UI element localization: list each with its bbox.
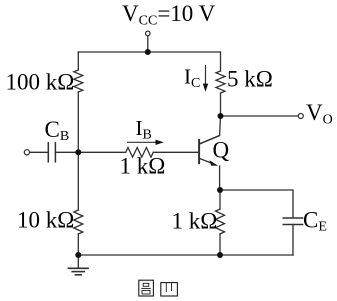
wire input stub (terminal to CB): [30, 151, 48, 153]
resistor R2 10 kOhm: [74, 210, 83, 234]
caption: Chinese characters (Figure 4) drawn as strokes: [139, 280, 178, 296]
wire CE to bottom rail: [292, 225, 294, 256]
svg-text:IB: IB: [136, 116, 152, 143]
capacitor CE plates: [283, 218, 302, 225]
transistor Q collector diagonal: [199, 136, 219, 145]
svg-text:VCC=10 V: VCC=10 V: [122, 1, 216, 29]
wire CB to base node: [55, 151, 78, 153]
wire left branch lower (base node to 10k): [77, 152, 79, 210]
wire 1k emitter to bottom rail: [219, 234, 221, 255]
wire collector lead: [199, 116, 220, 144]
transistor Q emitter diagonal with arrow: [199, 158, 218, 165]
resistor R1 100 kOhm: [74, 70, 83, 92]
svg-text:CE: CE: [303, 208, 327, 235]
wire left branch upper (Vcc to 100k): [77, 52, 79, 70]
node: emitter node dot: [217, 187, 223, 193]
wire base node to 1k base resistor: [78, 151, 125, 153]
svg-text:VO: VO: [306, 100, 333, 128]
resistor R4 1 kOhm (base): [126, 148, 154, 158]
terminal: Vo open circle: [298, 114, 303, 119]
node: collector node dot: [218, 113, 224, 119]
wire emitter node to 1k emitter: [219, 190, 221, 209]
wire top rail: [78, 51, 220, 53]
terminal: input open circle: [24, 150, 29, 155]
current arrow IB: [127, 140, 164, 145]
svg-text:5 kΩ: 5 kΩ: [227, 67, 273, 92]
wire left branch middle (100k to base node): [77, 92, 79, 152]
wire right branch top (rail to 5k): [220, 52, 222, 71]
resistor R5 1 kOhm (emitter): [216, 209, 225, 234]
node: Vcc tap dot: [145, 49, 151, 55]
capacitor CB plates: [48, 143, 55, 162]
wire emitter node to CE branch: [220, 190, 293, 217]
svg-text:1 kΩ: 1 kΩ: [172, 209, 218, 234]
svg-text:1 kΩ: 1 kΩ: [120, 154, 166, 179]
ground stem: [77, 255, 79, 268]
svg-text:100 kΩ: 100 kΩ: [6, 70, 75, 95]
transistor Q base bar: [198, 140, 200, 163]
svg-text:CB: CB: [45, 117, 70, 144]
svg-text:IC: IC: [184, 65, 200, 92]
current arrow IC: [203, 65, 208, 92]
wire Vcc stub: [147, 36, 149, 52]
wire right branch (5k to collector node): [220, 93, 222, 116]
node: ground rail left dot: [75, 252, 81, 258]
wire output (collector node to Vo terminal): [221, 115, 299, 117]
wire bottom rail: [78, 254, 293, 256]
node: bottom emitter dot: [217, 252, 223, 258]
node: base node dot: [75, 149, 81, 155]
wire emitter lead vertical: [219, 166, 221, 190]
glyph Tu (figure): [139, 280, 154, 296]
wire left branch bottom (10k to ground rail): [77, 234, 79, 255]
resistor R3 5 kOhm: [216, 71, 225, 93]
svg-text:10 kΩ: 10 kΩ: [17, 208, 74, 233]
terminal: Vcc open circle: [146, 31, 151, 36]
ground symbol: [68, 268, 89, 275]
glyph Si (four): [161, 283, 178, 296]
svg-text:Q: Q: [213, 138, 230, 163]
wire 1k to transistor base: [153, 151, 199, 153]
